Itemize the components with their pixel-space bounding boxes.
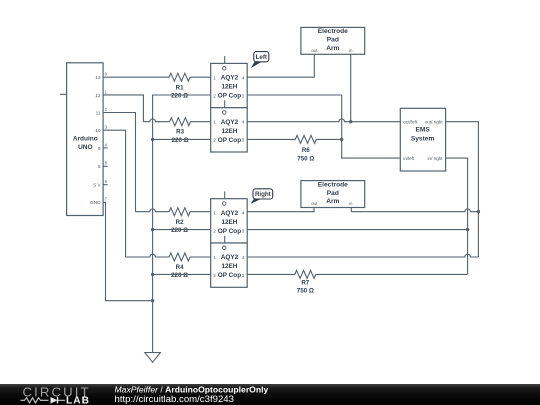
- svg-text:220 Ω: 220 Ω: [172, 137, 189, 144]
- svg-text:OP Cop: OP Cop: [218, 93, 241, 100]
- svg-text:1: 1: [213, 211, 216, 216]
- svg-text:2: 2: [213, 229, 216, 234]
- svg-text:220 Ω: 220 Ω: [171, 227, 188, 234]
- svg-text:3: 3: [242, 273, 245, 278]
- svg-text:5: 5: [98, 164, 101, 170]
- svg-text:in: in: [349, 48, 353, 53]
- svg-text:R1: R1: [176, 84, 184, 91]
- svg-text:OP Cop: OP Cop: [218, 137, 241, 144]
- svg-text:R4: R4: [176, 264, 184, 271]
- svg-text:http://circuitlab.com/c3f9243: http://circuitlab.com/c3f9243: [115, 394, 234, 405]
- svg-text:13: 13: [95, 75, 101, 81]
- svg-text:12: 12: [95, 93, 101, 99]
- svg-text:Electrode: Electrode: [318, 28, 348, 35]
- svg-text:AQY2: AQY2: [221, 75, 239, 82]
- svg-text:1: 1: [213, 120, 216, 125]
- svg-text:3: 3: [242, 229, 245, 234]
- svg-text:AQY2: AQY2: [221, 210, 239, 217]
- svg-text:12EH: 12EH: [221, 128, 237, 135]
- svg-text:12EH: 12EH: [221, 84, 237, 91]
- svg-text:Arm: Arm: [326, 198, 339, 205]
- svg-text:R6: R6: [302, 147, 310, 154]
- svg-text:Electrode: Electrode: [318, 181, 348, 188]
- svg-text:220 Ω: 220 Ω: [171, 272, 188, 279]
- svg-text:1: 1: [213, 255, 216, 260]
- svg-text:EMS: EMS: [415, 127, 430, 134]
- svg-text:out: out: [311, 48, 318, 53]
- svg-text:OP Cop: OP Cop: [218, 228, 241, 235]
- svg-text:MaxPfeiffer / ArduinoOptocoupl: MaxPfeiffer / ArduinoOptocouplerOnly: [115, 384, 269, 394]
- svg-text:in/left: in/left: [403, 156, 415, 161]
- svg-text:9: 9: [98, 146, 101, 152]
- svg-text:Pad: Pad: [327, 37, 339, 44]
- svg-text:4: 4: [242, 255, 245, 260]
- svg-text:out/ right: out/ right: [425, 120, 444, 125]
- svg-text:750 Ω: 750 Ω: [297, 155, 314, 162]
- svg-text:Pad: Pad: [327, 190, 339, 197]
- svg-text:2: 2: [213, 93, 216, 98]
- svg-text:Arduino: Arduino: [73, 135, 98, 142]
- svg-text:LAB: LAB: [66, 395, 90, 405]
- svg-text:3: 3: [242, 93, 245, 98]
- svg-text:AQY2: AQY2: [221, 119, 239, 126]
- svg-text:UNO: UNO: [78, 144, 92, 151]
- svg-text:11: 11: [96, 110, 101, 116]
- svg-text:OP Cop: OP Cop: [218, 272, 241, 279]
- svg-text:out/left: out/left: [403, 120, 418, 125]
- svg-text:12EH: 12EH: [221, 263, 237, 270]
- svg-text:out: out: [311, 201, 318, 206]
- svg-text:2: 2: [213, 138, 216, 143]
- svg-text:System: System: [411, 136, 435, 143]
- svg-text:1: 1: [213, 75, 216, 80]
- svg-text:Right: Right: [255, 191, 271, 198]
- svg-text:12EH: 12EH: [221, 219, 237, 226]
- svg-text:5 V: 5 V: [93, 183, 101, 189]
- svg-text:4: 4: [242, 120, 245, 125]
- svg-text:10: 10: [95, 128, 101, 134]
- svg-text:R3: R3: [176, 128, 184, 135]
- svg-text:Arm: Arm: [326, 45, 339, 52]
- svg-text:in: in: [349, 201, 353, 206]
- svg-text:AQY2: AQY2: [221, 254, 239, 261]
- svg-text:750 Ω: 750 Ω: [297, 288, 314, 295]
- svg-text:Left: Left: [256, 54, 267, 61]
- svg-text:4: 4: [242, 211, 245, 216]
- svg-text:2: 2: [213, 273, 216, 278]
- svg-text:GND: GND: [90, 200, 101, 206]
- svg-text:R2: R2: [176, 219, 184, 226]
- svg-text:in/ right: in/ right: [428, 156, 444, 161]
- svg-text:220 Ω: 220 Ω: [171, 92, 188, 99]
- svg-text:R7: R7: [301, 280, 309, 287]
- svg-text:4: 4: [242, 75, 245, 80]
- svg-text:3: 3: [242, 138, 245, 143]
